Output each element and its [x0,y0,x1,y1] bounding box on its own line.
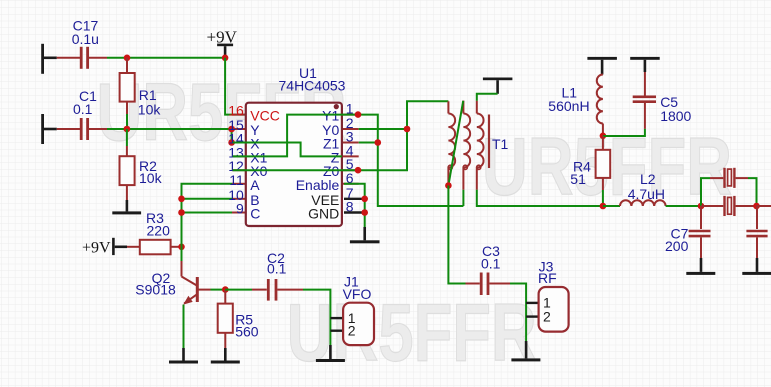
resistor R4 [570,136,610,206]
terminal input bottom (C1 input) [41,114,57,144]
svg-text:220: 220 [147,222,171,238]
junction node pin15 [228,126,235,133]
wire Y0/Z0 net to T1 left winding top [359,101,449,170]
junction node pin1 [355,111,362,118]
ground flag above T1 right winding [477,78,513,101]
junction node R4/L2 [600,203,607,210]
crystal top [710,168,748,188]
junction node R3/Q2 collector [178,244,185,251]
svg-text:200: 200 [665,238,689,254]
ground under J1 [316,345,345,362]
wire Y1/Z1 net to T1 middle winding [359,115,464,206]
svg-text:L2: L2 [640,171,656,187]
ground under R2 [112,200,141,214]
capacitor C2 [225,250,303,301]
svg-text:560nH: 560nH [548,98,589,114]
svg-text:4.7uH: 4.7uH [628,186,665,202]
svg-text:10k: 10k [138,102,162,118]
IC U1 74HC4053 box [228,65,358,226]
junction node T1 left bottom [445,182,452,189]
ground flag above C5 [630,57,660,72]
capacitor right output [746,206,767,258]
svg-text:+9V: +9V [82,240,111,257]
svg-text:T1: T1 [492,136,509,152]
junction node crystal right [753,203,760,210]
IC pin7 pin8 black stubs [344,199,365,213]
svg-text:RF: RF [538,270,557,286]
junction node base/R5/C2 [222,286,229,293]
junction node B row [178,196,185,203]
capacitor C1 [57,88,107,140]
watermark UR5FFR top-left [97,67,347,158]
junction node C1/R1/R2 [124,126,131,133]
capacitor C17 [57,18,107,69]
svg-text:0.1: 0.1 [73,101,93,117]
wire output to right edge [757,205,771,207]
ground under J3 [511,341,540,361]
svg-text:51: 51 [570,171,586,187]
wire X0 to Z0 through box [233,169,359,171]
junction node at +9V [222,55,229,62]
svg-text:560: 560 [235,324,259,340]
wire R3 node up to pins A B C [182,184,233,247]
svg-text:C: C [250,206,260,222]
wire C2 to J1 [303,290,330,345]
wire T1 left bottom junction down [462,190,464,206]
wire C5 bottom to L1 node [603,129,645,136]
wire L2 to output node [666,205,701,207]
inductor L1 560nH [548,75,603,134]
crystal bottom [701,196,757,216]
resistor R5 [218,290,259,348]
transformer T1 [448,101,508,190]
svg-text:S9018: S9018 [135,282,176,298]
supply +9V flag at R3 [82,238,127,257]
watermark UR5FFR bottom-center [287,288,537,379]
wire R1 bottom to C1 node [126,114,128,129]
junction node pin7 [361,196,368,203]
junction node C row [178,209,185,216]
wire T1 node down to C3 [448,186,465,284]
wire Q2 emitter to ground [183,305,185,348]
ground flag above L1 [587,57,617,75]
svg-text:1800: 1800 [660,108,691,124]
svg-text:11: 11 [229,172,244,188]
wire up to crystal Q3 row [701,178,710,206]
inductor L2 4.7uH [603,171,666,206]
wire Q2 base node [211,289,226,291]
junction node at C17/R1 [124,55,131,62]
wire Enable/VEE/GND to ground [344,184,365,227]
svg-text:GND: GND [308,206,339,222]
connector J1 VFO [330,274,374,346]
ground under C7 [686,258,715,275]
resistor R3 [127,210,182,254]
capacitor C7 [665,206,711,258]
svg-text:0.1: 0.1 [267,260,287,276]
svg-text:9: 9 [236,201,244,217]
wire C3 to J3 [510,284,526,342]
svg-text:0.1u: 0.1u [72,31,99,47]
transistor Q2 S9018 [135,247,210,305]
capacitor C5 [633,72,692,129]
svg-text:10k: 10k [139,170,163,186]
svg-text:0.1: 0.1 [481,256,501,272]
resistor R2 [120,129,163,200]
svg-text:Enable: Enable [296,177,340,193]
svg-text:2: 2 [543,308,551,324]
junction node pin3 net [375,139,382,146]
svg-text:UR5FFR: UR5FFR [287,288,537,379]
ground under IC [350,227,380,243]
wire X1 to Y1 through box [233,115,359,157]
wire C17 to +9V node [107,57,225,59]
wire crystal top right down [748,178,757,206]
wire X to Z through box [233,143,342,157]
wire pin3 Z1 stub to net [359,142,378,144]
ground under right capacitor [742,258,771,275]
junction node pin5 [355,167,362,174]
resistor R1 [120,58,162,118]
junction node pin14 [228,139,235,146]
wire diagonal T1 left-bottom to middle-top [448,101,463,186]
capacitor C3 [466,243,511,295]
supply +9V flag top [207,28,238,56]
junction node pin2 net [404,126,411,133]
ground under R5 [211,348,240,364]
terminal input top (C17 input) [41,44,57,74]
junction node L1/C5/R4 [600,133,607,140]
wire T1 right winding bottom to output node [477,190,603,206]
svg-text:74HC4053: 74HC4053 [279,78,346,94]
junction node L2/C7/crystals [698,203,705,210]
svg-text:A: A [250,177,260,193]
watermark UR5FFR middle-right [482,122,732,213]
junction node pin8 [361,209,368,216]
svg-text:2: 2 [348,323,356,339]
wire +9V down to pin16 VCC [225,58,245,115]
connector J3 RF [526,259,569,332]
svg-text:VFO: VFO [343,286,372,302]
ground under Q2 [169,348,198,364]
wire C1 node to pin15/pin14 [107,129,245,143]
